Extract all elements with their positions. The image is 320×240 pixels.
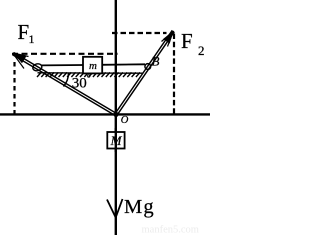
force F1 arrowhead	[13, 53, 29, 69]
weight vector Mg arrowhead	[107, 199, 123, 218]
angle arc 30 degrees	[64, 73, 69, 87]
svg-text:Mg: Mg	[124, 196, 155, 218]
label F1	[18, 20, 35, 46]
svg-text:1: 1	[29, 32, 35, 46]
label Mg	[124, 196, 155, 218]
dashed projection line left vertical	[13, 62, 15, 114]
hanging block M box below origin	[107, 132, 124, 149]
origin junction blob	[113, 112, 118, 117]
svg-text:manfen5.com: manfen5.com	[142, 225, 199, 236]
hatching strokes	[37, 72, 140, 77]
x-axis	[0, 113, 210, 115]
dashed projection line right horizontal	[112, 32, 167, 34]
ring on F2 rope at B	[145, 64, 151, 70]
label 30 degrees	[72, 73, 91, 92]
horizontal string left segment	[41, 64, 84, 66]
svg-text:m: m	[89, 60, 97, 72]
ring on F1 rope	[32, 63, 42, 72]
horizontal string right segment	[101, 63, 145, 66]
y-axis segment redrawn over block M box	[115, 128, 117, 152]
svg-text:°: °	[87, 73, 91, 85]
svg-text:O: O	[121, 115, 129, 126]
force F2 shaft (double line from origin to upper-right)	[115, 30, 174, 115]
watermark manfen5.com	[142, 225, 199, 236]
svg-text:2: 2	[198, 43, 205, 58]
svg-text:30: 30	[72, 75, 87, 91]
label F2	[181, 29, 205, 58]
label O at origin	[121, 115, 129, 126]
y-axis	[115, 0, 117, 235]
svg-text:F: F	[18, 20, 30, 44]
svg-text:F: F	[181, 29, 193, 53]
hatched surface line	[38, 72, 144, 74]
block m box	[83, 57, 102, 74]
dashed projection line right vertical	[173, 34, 175, 114]
force F1 shaft (double line from origin to upper-left)	[12, 53, 116, 116]
dashed projection line left horizontal	[12, 53, 118, 55]
label B	[152, 54, 160, 69]
force F2 arrowhead	[162, 31, 174, 47]
svg-text:B: B	[152, 54, 160, 69]
